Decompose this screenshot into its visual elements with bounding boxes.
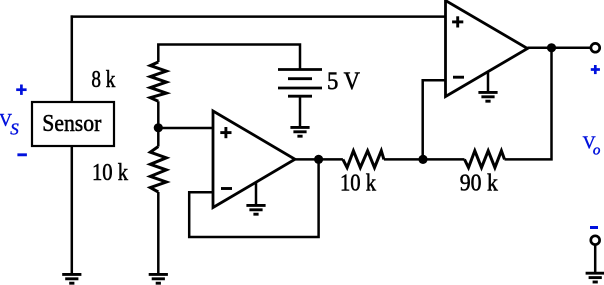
label - (blue, sensor) bbox=[17, 153, 27, 156]
wire sensor top bbox=[71, 15, 74, 103]
label - (blue, output) bbox=[590, 226, 598, 229]
node mid bbox=[418, 155, 427, 164]
terminal Vo+ bbox=[591, 43, 600, 52]
svg-text:5 V: 5 V bbox=[327, 68, 360, 95]
terminal Vo- bbox=[591, 236, 600, 245]
svg-text:10 k: 10 k bbox=[340, 170, 376, 196]
svg-text:10 k: 10 k bbox=[92, 160, 128, 186]
ground (sensor) bbox=[62, 274, 81, 283]
wire battery to ground bbox=[299, 96, 302, 127]
node U2 output bbox=[547, 43, 556, 52]
battery 5V bbox=[278, 70, 322, 97]
svg-text:S: S bbox=[10, 119, 19, 138]
ground (output) bbox=[586, 273, 604, 282]
resistor 90k bbox=[465, 151, 505, 168]
node U1 output bbox=[314, 155, 323, 164]
wire U1 output bbox=[295, 158, 343, 161]
sensor box bbox=[32, 102, 114, 146]
ground (U1) bbox=[246, 205, 265, 214]
wire node to 10k bbox=[157, 128, 160, 147]
wire U2 ground stub bbox=[487, 72, 490, 92]
op-amp U2 bbox=[446, 1, 528, 97]
resistor 10k horizontal bbox=[343, 151, 384, 168]
wire node to U2 minus bbox=[423, 80, 446, 159]
wire node to opamp1 plus bbox=[158, 127, 214, 130]
label + (blue, output) bbox=[591, 65, 600, 74]
ground (divider) bbox=[149, 274, 168, 283]
wire 8k to node bbox=[157, 101, 160, 128]
op-amp U2 minus bbox=[453, 76, 464, 79]
node divider bbox=[154, 123, 163, 132]
svg-text:Sensor: Sensor bbox=[42, 111, 101, 137]
svg-text:8 k: 8 k bbox=[91, 67, 115, 93]
op-amp U1 minus bbox=[221, 187, 232, 190]
wire 10k to 90k bbox=[384, 158, 465, 161]
svg-text:90 k: 90 k bbox=[460, 171, 498, 197]
ground (U2) bbox=[478, 92, 497, 101]
wire U2 output bbox=[528, 47, 591, 50]
resistor 10k vertical bbox=[150, 147, 166, 193]
label + (blue, sensor) bbox=[16, 85, 26, 95]
svg-text:o: o bbox=[593, 142, 601, 158]
resistor 8k bbox=[150, 62, 166, 101]
wire U1 ground stub bbox=[255, 182, 258, 205]
wire terminal to ground bbox=[594, 245, 597, 273]
wire 10k to ground bbox=[157, 192, 160, 274]
op-amp U1 bbox=[213, 111, 295, 208]
wire divider top bbox=[158, 45, 300, 71]
ground (battery) bbox=[290, 127, 309, 136]
wire U1 feedback bbox=[189, 159, 318, 237]
wire sensor bottom bbox=[71, 145, 74, 274]
op-amp U2 plus bbox=[452, 16, 463, 27]
wire top rail bbox=[72, 15, 446, 16]
op-amp U1 plus bbox=[220, 127, 231, 138]
wire 90k to output bbox=[505, 48, 552, 160]
